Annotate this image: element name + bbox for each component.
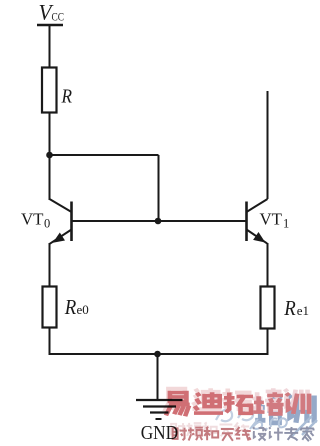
- wire Re1 to bottom rail: [267, 329, 269, 356]
- label VT1: [260, 210, 290, 231]
- watermark red char DI (迪): [194, 392, 223, 413]
- watermark red halo XUN: [284, 389, 307, 410]
- watermark blue char XUN (训) large: [288, 395, 315, 423]
- watermark gray char ZHUAN (专): [284, 427, 298, 441]
- svg-text:R: R: [64, 295, 76, 319]
- wire down to base rail: [158, 155, 160, 221]
- watermark red halo TUO: [222, 389, 251, 410]
- transistor VT1: [247, 199, 268, 243]
- watermark red char TUO (拓): [224, 393, 253, 414]
- label VT0: [21, 210, 50, 231]
- node A junction dot: [46, 152, 53, 159]
- svg-text:CC: CC: [52, 10, 65, 24]
- label Re0: [64, 295, 89, 319]
- ground: [136, 400, 183, 419]
- watermark red char XUN (训): [286, 393, 309, 414]
- watermark blue script squiggle: [216, 409, 253, 422]
- wire VT1 emitter to Re1: [267, 243, 269, 287]
- watermark red halo YI: [164, 389, 188, 413]
- svg-text:VT: VT: [21, 210, 44, 229]
- watermark red char YI (易): [166, 393, 190, 417]
- wire node C to ground: [157, 354, 159, 400]
- svg-text:e0: e0: [77, 302, 89, 317]
- watermark blue char PEI (培) large: [255, 394, 283, 423]
- wire VT1 collector up (output terminal): [267, 91, 269, 199]
- svg-text:R: R: [283, 296, 295, 320]
- wire VT0 emitter to Re0: [49, 243, 51, 287]
- wire base rail VT0 to VT1: [72, 220, 247, 222]
- watermark gray char JIA (家): [301, 426, 314, 441]
- watermark blue script dotcom: [250, 418, 287, 430]
- watermark pink char TIAN (天): [221, 429, 234, 441]
- wire VCC bar to resistor R: [49, 25, 51, 69]
- wire Re0 to bottom rail: [49, 328, 51, 356]
- watermark red halo PEI: [252, 388, 282, 410]
- watermark pink char PIN (频): [188, 427, 203, 440]
- resistor R: [42, 68, 57, 113]
- watermark pink halo row: [171, 422, 249, 436]
- label Re1: [283, 296, 309, 320]
- resistor Re0: [43, 287, 57, 328]
- watermark pink char HE (和): [204, 427, 218, 440]
- wire R to VT0 collector: [49, 113, 51, 201]
- svg-text:R: R: [61, 86, 72, 108]
- node B junction dot on base rail: [155, 218, 162, 225]
- watermark pink char XIAN (线): [236, 427, 251, 441]
- watermark red halo DI: [192, 388, 221, 409]
- node C junction dot on bottom rail: [154, 351, 161, 358]
- svg-text:e1: e1: [297, 303, 309, 318]
- resistor Re1: [261, 287, 275, 329]
- svg-text:VT: VT: [260, 210, 283, 229]
- power VCC terminal bar: [37, 24, 63, 27]
- watermark blue script squiggle right: [292, 416, 317, 436]
- watermark red char PEI (培): [253, 392, 283, 414]
- watermark pink char SHE (射): [173, 428, 187, 441]
- wire bottom rail: [50, 353, 268, 355]
- svg-text:0: 0: [44, 217, 50, 231]
- transistor VT0: [50, 199, 72, 244]
- svg-text:1: 1: [283, 217, 289, 231]
- watermark gray char SHEJ (设): [253, 427, 266, 440]
- wire node A to right: [50, 154, 159, 156]
- watermark gray char JI (计): [269, 427, 283, 440]
